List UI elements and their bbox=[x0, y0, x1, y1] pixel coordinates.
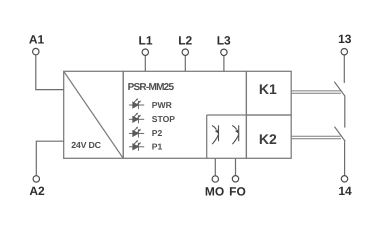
semiconductor output MO symbol bbox=[212, 125, 219, 144]
svg-text:A1: A1 bbox=[29, 32, 45, 46]
terminal 14 bbox=[341, 176, 347, 182]
svg-text:24V DC: 24V DC bbox=[71, 140, 101, 150]
wire between contacts bbox=[344, 96, 346, 127]
wire L2 bbox=[184, 56, 186, 72]
svg-text:L1: L1 bbox=[138, 33, 152, 47]
diagonal of power supply block bbox=[64, 71, 123, 158]
LED STOP bbox=[129, 112, 144, 123]
wire to 14 bbox=[344, 141, 346, 175]
wire A1 to power block bbox=[36, 55, 64, 90]
svg-text:13: 13 bbox=[338, 32, 352, 46]
svg-text:MO: MO bbox=[205, 185, 224, 199]
svg-text:L2: L2 bbox=[178, 33, 192, 47]
svg-text:L3: L3 bbox=[217, 33, 231, 47]
relay coil K1 box bbox=[246, 71, 291, 115]
terminal L2 bbox=[182, 49, 188, 55]
svg-text:P1: P1 bbox=[152, 142, 163, 152]
power supply block 24V DC bbox=[64, 71, 123, 158]
svg-text:P2: P2 bbox=[152, 128, 163, 138]
svg-text:PSR-MM25: PSR-MM25 bbox=[128, 82, 175, 93]
wire L3 bbox=[223, 56, 225, 72]
svg-text:STOP: STOP bbox=[152, 114, 176, 124]
main device box PSR-MM25 bbox=[123, 71, 246, 158]
LED P2 bbox=[129, 127, 144, 138]
semiconductor output FO symbol bbox=[232, 125, 239, 144]
wire 13 down bbox=[343, 55, 345, 83]
wire A2 to power block bbox=[36, 141, 63, 175]
terminal A1 bbox=[33, 48, 39, 54]
terminal L3 bbox=[221, 49, 227, 55]
svg-text:K2: K2 bbox=[259, 131, 277, 147]
wire MO bbox=[214, 158, 216, 175]
svg-text:PWR: PWR bbox=[152, 100, 173, 110]
terminal L1 bbox=[142, 49, 148, 55]
mechanical link K1 to contact bbox=[291, 91, 341, 93]
svg-text:A2: A2 bbox=[29, 184, 45, 198]
wire FO bbox=[235, 158, 237, 175]
svg-text:14: 14 bbox=[338, 184, 352, 198]
svg-text:K1: K1 bbox=[259, 81, 277, 97]
LED PWR bbox=[129, 98, 144, 109]
contact blade of K1 bbox=[334, 82, 345, 97]
mechanical link K2 to contact bbox=[291, 136, 341, 138]
LED P1 bbox=[129, 140, 144, 151]
semiconductor output sub-box bbox=[207, 115, 247, 158]
terminal MO bbox=[212, 176, 218, 182]
wire L1 bbox=[144, 56, 146, 72]
terminal A2 bbox=[33, 176, 39, 182]
relay coil K2 box bbox=[246, 115, 291, 158]
svg-text:FO: FO bbox=[229, 185, 246, 199]
contact blade of K2 bbox=[335, 127, 346, 142]
terminal 13 bbox=[341, 49, 347, 55]
terminal FO bbox=[232, 176, 238, 182]
